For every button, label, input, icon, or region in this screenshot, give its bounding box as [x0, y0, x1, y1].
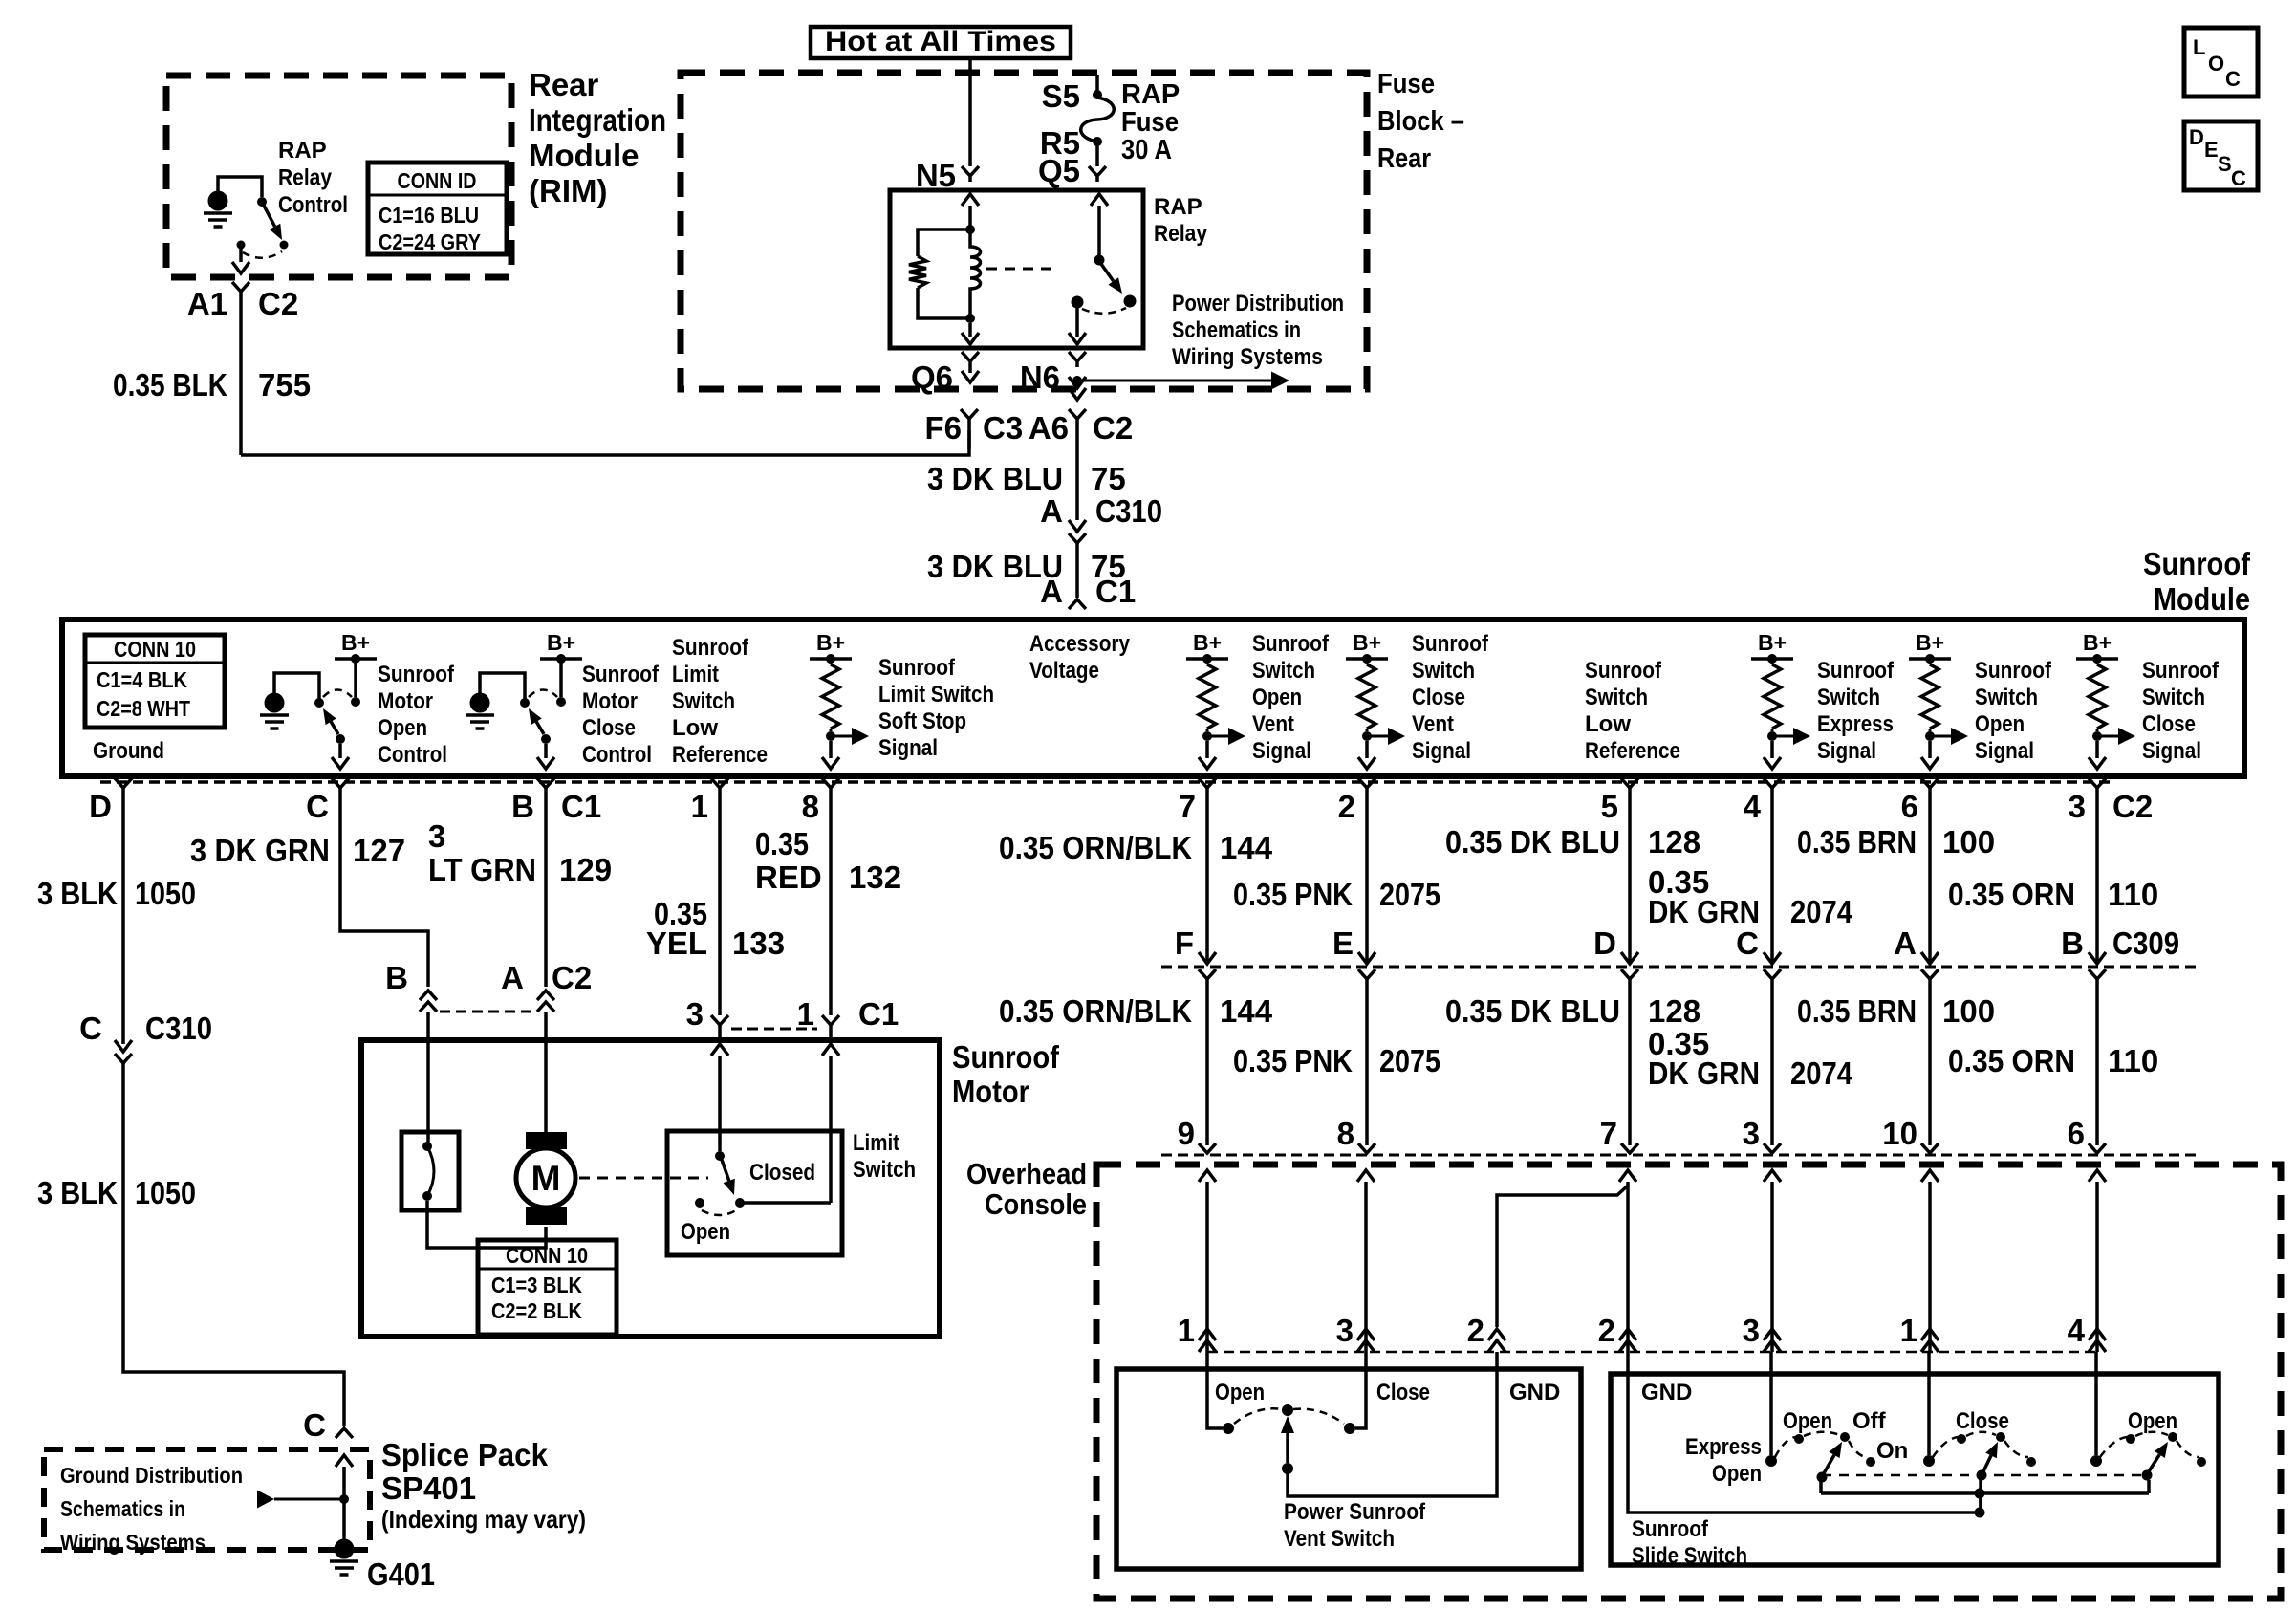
- svg-text:100: 100: [1942, 993, 1995, 1029]
- svg-text:N6: N6: [1020, 359, 1060, 395]
- pull-up resistor: [1929, 659, 1932, 664]
- junction and signal arrow (soft stop): [826, 731, 835, 741]
- svg-text:128: 128: [1648, 993, 1700, 1029]
- svg-text:Open: Open: [1215, 1380, 1265, 1405]
- svg-text:A: A: [1040, 493, 1063, 529]
- console wire 10 to slide switch close: [1921, 1170, 1939, 1182]
- svg-text:128: 128: [1648, 824, 1700, 860]
- slide switch open wire to contact: [2094, 1352, 2098, 1455]
- wire 1050 from C310 to splice pack: [123, 1063, 344, 1426]
- relay switch arm with arrow: [1101, 264, 1114, 281]
- switch pivot node (motor close): [541, 734, 551, 744]
- module box: Sunroof Module: [62, 620, 2244, 776]
- module box: Overhead Console dashed outline: [1096, 1165, 2281, 1599]
- svg-text:C: C: [2231, 166, 2246, 190]
- wire from module pin to C309 at x=1430: [1365, 788, 1369, 961]
- protector bottom node: [422, 1191, 432, 1201]
- thermal protector box: [401, 1132, 459, 1210]
- wire from module pin to C309 at x=2194: [2095, 788, 2099, 961]
- close contact node: [1923, 1455, 1935, 1467]
- power feed box: Hot at All Times: [811, 27, 1071, 58]
- wire protector to motor bottom: [427, 1201, 546, 1248]
- component box: RAP Relay: [890, 190, 1143, 348]
- dashed throw arc (motor open switch): [323, 690, 352, 698]
- relay resistor branch wire: [918, 229, 970, 256]
- B+ stub wire to switch throw: [354, 659, 357, 697]
- pin A6 fork below fuse block: [1069, 409, 1086, 419]
- svg-text:0.35 BLK: 0.35 BLK: [113, 367, 227, 403]
- male connector chevron at splice pack: [336, 1428, 353, 1438]
- console entry fork: [2089, 1143, 2106, 1153]
- in-line connector pin A (motor harness): [537, 991, 554, 1000]
- svg-text:3: 3: [1743, 1116, 1760, 1151]
- vent close contact node: [1344, 1423, 1355, 1434]
- svg-text:Q6: Q6: [911, 359, 953, 395]
- dashed throw arc (limit switch): [702, 1210, 736, 1215]
- open right position node: [2197, 1457, 2206, 1467]
- switch arm with arrow (motor close): [536, 722, 544, 734]
- node S5: [1093, 90, 1102, 99]
- wire pin1 into motor box: [829, 1025, 833, 1042]
- svg-text:GND: GND: [1509, 1380, 1560, 1405]
- wire pivot to module edge pin C with arrow: [338, 744, 342, 758]
- svg-text:C2: C2: [1093, 410, 1133, 446]
- relay resistor lower wire: [918, 288, 970, 318]
- module pin 1 connector fork: [711, 778, 728, 788]
- entry arrow into splice pack: [336, 1455, 353, 1467]
- console wire 3 to slide switch express: [1764, 1170, 1781, 1182]
- svg-text:4: 4: [2068, 1313, 2086, 1348]
- CONN ID table box in RIM: [368, 163, 507, 254]
- svg-text:0.35 ORN: 0.35 ORN: [1948, 1043, 2075, 1078]
- close switch pivot-lower node: [1977, 1470, 1987, 1481]
- switch throw node (motor open): [351, 697, 360, 707]
- express actuator arrow: [1824, 1455, 1834, 1473]
- pin Q5 fork at RAP relay: [1089, 166, 1106, 182]
- arrow at C309: [1621, 952, 1638, 964]
- svg-text:SunroofModule: SunroofModule: [2143, 546, 2251, 617]
- slide mechanical link dashed: [1822, 1474, 2147, 1477]
- svg-text:132: 132: [849, 860, 901, 895]
- ground symbol inside RIM: [208, 191, 228, 211]
- wire B to thermal protector: [426, 1040, 430, 1143]
- svg-text:B+: B+: [2083, 630, 2112, 655]
- svg-text:CONN ID: CONN ID: [398, 168, 477, 193]
- svg-text:B: B: [2061, 925, 2084, 961]
- component box: Power Sunroof Vent Switch: [1116, 1369, 1581, 1569]
- svg-text:0.35 ORN: 0.35 ORN: [1948, 877, 2075, 912]
- wire from pin 1 down to motor pin 3: [718, 788, 722, 1015]
- svg-text:C1=16 BLU: C1=16 BLU: [379, 203, 479, 228]
- junction and signal arrow: [1767, 731, 1777, 741]
- console inner pin 1 connector: [1921, 1329, 1939, 1340]
- console inner pin 1 connector: [1199, 1329, 1216, 1340]
- console entry fork: [1621, 1143, 1638, 1153]
- wire fixed contact to ground symbol: [480, 673, 525, 699]
- svg-text:B+: B+: [547, 630, 575, 655]
- svg-text:F: F: [1175, 925, 1194, 961]
- svg-text:0.35 BRN: 0.35 BRN: [1797, 993, 1917, 1029]
- svg-text:E: E: [1332, 925, 1354, 961]
- svg-text:9: 9: [1178, 1116, 1195, 1151]
- vent wire 3 to close contact: [1355, 1352, 1366, 1428]
- svg-text:L: L: [2193, 35, 2205, 59]
- svg-text:(Indexing may vary): (Indexing may vary): [381, 1505, 586, 1534]
- svg-text:3: 3: [1336, 1313, 1354, 1348]
- relay switch throw node: [1124, 295, 1137, 308]
- wire pin3 into motor box: [718, 1025, 722, 1042]
- svg-text:B+: B+: [1193, 630, 1222, 655]
- dashed throw arc of relay switch: [1082, 308, 1126, 314]
- svg-text:A1: A1: [187, 286, 227, 321]
- svg-text:8: 8: [1337, 1116, 1354, 1151]
- svg-text:Closed: Closed: [749, 1160, 815, 1186]
- svg-text:75: 75: [1091, 461, 1126, 496]
- C309 fork: [1921, 969, 1939, 979]
- svg-text:M: M: [531, 1159, 561, 1198]
- svg-text:3 DK BLU: 3 DK BLU: [927, 461, 1063, 496]
- svg-text:1: 1: [1900, 1313, 1917, 1348]
- svg-text:127: 127: [353, 833, 405, 868]
- svg-text:7: 7: [1600, 1116, 1617, 1151]
- node N6 junction: [1072, 376, 1082, 385]
- module pin C connector fork: [332, 778, 349, 788]
- relay switch common node: [1072, 296, 1084, 309]
- console wire 6 to slide switch open: [2089, 1170, 2106, 1182]
- wire B into motor box: [426, 1012, 430, 1040]
- express contact node: [1765, 1455, 1777, 1467]
- motor M armature bottom terminal: [526, 1207, 567, 1225]
- in-line connector C310 on ground wire: [115, 1040, 132, 1052]
- svg-text:3: 3: [686, 996, 704, 1032]
- svg-text:2: 2: [1467, 1313, 1484, 1348]
- svg-text:1: 1: [691, 789, 708, 824]
- svg-text:1050: 1050: [135, 876, 196, 911]
- dashed throw arc of RAP relay control switch: [243, 251, 282, 258]
- module pin 5 connector fork: [1621, 778, 1638, 788]
- svg-text:D: D: [89, 789, 112, 824]
- legend box LOC: [2184, 28, 2258, 97]
- svg-text:A: A: [1040, 574, 1063, 609]
- svg-text:B: B: [511, 789, 534, 824]
- svg-text:2074: 2074: [1790, 1056, 1853, 1091]
- slide switch close wire to contact: [1927, 1352, 1931, 1455]
- branch wire to vent switch GND: [1497, 1186, 1628, 1327]
- svg-text:1: 1: [797, 996, 814, 1032]
- motor connector pin 1 fork: [822, 1015, 839, 1025]
- svg-text:C2: C2: [552, 960, 592, 995]
- svg-text:D: D: [1593, 925, 1616, 961]
- console entry fork: [1199, 1143, 1216, 1153]
- console entry fork: [1358, 1143, 1375, 1153]
- svg-text:3 BLK: 3 BLK: [37, 1175, 118, 1210]
- svg-text:6: 6: [2068, 1116, 2085, 1151]
- module box: Sunroof Motor: [361, 1040, 940, 1337]
- svg-text:3 DK GRN: 3 DK GRN: [190, 833, 330, 868]
- svg-text:GND: GND: [1641, 1380, 1692, 1405]
- svg-text:G401: G401: [367, 1557, 435, 1592]
- wire from module pin to C309 at x=1263: [1205, 788, 1209, 961]
- wire to module edge pin 8 with arrow: [829, 741, 833, 758]
- svg-text:8: 8: [802, 789, 819, 824]
- wire Q6 to fuse block border with arrow: [968, 367, 972, 373]
- relay resistor: [909, 256, 926, 288]
- svg-text:755: 755: [258, 367, 311, 403]
- svg-text:6: 6: [1901, 789, 1918, 824]
- in-line connector C310 halves: [1069, 520, 1086, 532]
- dashed throw arc (motor close switch): [529, 690, 557, 698]
- svg-text:C: C: [1736, 925, 1759, 961]
- slide GND riser to common bus: [1979, 1493, 1982, 1513]
- open switch pivot-lower node: [2142, 1470, 2153, 1481]
- connector C309 dashed line: [1161, 966, 2199, 969]
- legend box DESC: [2184, 121, 2258, 190]
- svg-text:110: 110: [2108, 1043, 2158, 1078]
- relay switch pivot node: [1094, 255, 1105, 266]
- svg-text:C1: C1: [1095, 574, 1136, 609]
- svg-text:C310: C310: [1095, 493, 1162, 529]
- slide GND wire: [1628, 1352, 1981, 1513]
- dashed arcs of open switch: [2100, 1437, 2127, 1457]
- protector element arc: [427, 1146, 434, 1196]
- svg-text:B+: B+: [1916, 630, 1944, 655]
- C309 fork: [1199, 969, 1216, 979]
- fuse element RAP Fuse 30 A: [1081, 98, 1115, 142]
- reference arrow to Power Distribution Schematics: [1077, 380, 1271, 382]
- wire fixed contact to ground symbol: [274, 673, 319, 699]
- svg-text:144: 144: [1220, 830, 1273, 865]
- dashed arcs of close switch: [1933, 1437, 1958, 1457]
- svg-text:C1=4 BLK: C1=4 BLK: [97, 667, 187, 692]
- wire N6 through border with double arrows: [1069, 377, 1086, 388]
- svg-text:C1: C1: [858, 996, 899, 1032]
- arrow at C309: [1764, 952, 1781, 964]
- close actuator arrow: [1983, 1455, 1991, 1471]
- svg-text:N5: N5: [916, 158, 956, 193]
- svg-text:2: 2: [1598, 1313, 1615, 1348]
- svg-text:7: 7: [1179, 789, 1196, 824]
- wire from C309 to overhead console at x=1705: [1628, 979, 1632, 1145]
- wire to module edge with arrow: [1928, 741, 1932, 758]
- wire from pin B down to motor pin A: [544, 788, 548, 987]
- svg-text:2: 2: [1338, 789, 1355, 824]
- svg-text:CONN 10: CONN 10: [114, 637, 196, 662]
- limit switch feed arrow (pin 3 wire): [711, 1044, 728, 1056]
- splice junction node: [339, 1494, 349, 1504]
- component box: limit switch: [667, 1131, 842, 1255]
- svg-text:C2: C2: [2112, 789, 2153, 824]
- svg-text:C1=3 BLK: C1=3 BLK: [491, 1273, 582, 1297]
- svg-text:B+: B+: [1353, 630, 1381, 655]
- wire pivot to module edge pin B with arrow: [544, 744, 548, 758]
- close right position node: [2026, 1457, 2036, 1467]
- svg-text:Open: Open: [1783, 1408, 1832, 1434]
- reference arrow to ground distribution: [257, 1491, 274, 1509]
- svg-text:Q5: Q5: [1038, 153, 1080, 188]
- ground G401 symbol: [335, 1539, 355, 1559]
- svg-text:On: On: [1876, 1438, 1908, 1464]
- ground symbol (motor close switch): [470, 693, 490, 713]
- slide common bus wire: [1821, 1480, 2149, 1493]
- wire from ground to RAP relay control switch contact: [218, 177, 262, 197]
- svg-text:Close: Close: [1956, 1408, 2009, 1434]
- console inner pin 2 connector: [1619, 1329, 1636, 1340]
- switch pivot node (motor open): [336, 734, 345, 744]
- dashed arcs of express switch: [1775, 1437, 1795, 1457]
- switch arm with arrow (motor open): [331, 722, 338, 734]
- relay coil top junction: [965, 225, 975, 234]
- module box: Rear Integration Module (RIM) dashed outline: [166, 76, 511, 277]
- pin N5 fork at RAP relay: [962, 166, 979, 182]
- CONN 10 table box in motor: [478, 1240, 617, 1335]
- protector top node: [422, 1142, 432, 1151]
- relay switch feed wire with up arrow: [1091, 194, 1108, 206]
- svg-text:0.35 PNK: 0.35 PNK: [1233, 877, 1353, 912]
- relay coil bottom junction: [965, 314, 975, 323]
- svg-text:C1: C1: [561, 789, 601, 824]
- motor M circle: [516, 1148, 575, 1208]
- dashed line of motor connector C2: [440, 1011, 535, 1013]
- svg-text:F6: F6: [924, 410, 962, 446]
- pull-up resistor: [1366, 659, 1369, 664]
- vent open contact node: [1223, 1423, 1234, 1434]
- relay coil (inductor): [970, 229, 981, 318]
- pin A1 connector fork below RIM: [232, 282, 249, 455]
- dashed line of motor connector C1: [731, 1028, 817, 1031]
- svg-text:O: O: [2208, 52, 2224, 76]
- wire from C309 to overhead console at x=1430: [1365, 979, 1369, 1145]
- svg-text:C309: C309: [2112, 925, 2179, 961]
- dashed mechanical link motor to limit switch: [579, 1177, 708, 1180]
- pin F6 fork below fuse block: [961, 409, 978, 449]
- module pin 8 connector fork: [822, 778, 839, 788]
- svg-text:B+: B+: [341, 630, 370, 655]
- limit switch arm with arrow: [722, 1160, 729, 1181]
- open actuator arrow: [2149, 1454, 2159, 1471]
- limit switch pin1 feed arrow: [822, 1044, 839, 1056]
- arrow at C309: [1921, 952, 1939, 964]
- console wire 7 ground feed with branch: [1619, 1170, 1636, 1182]
- svg-text:D: D: [2189, 125, 2204, 149]
- svg-text:110: 110: [2108, 877, 2158, 912]
- C309 fork: [2089, 969, 2106, 979]
- module pin 4 connector fork: [1764, 778, 1781, 788]
- wire A into motor box: [544, 1012, 548, 1040]
- wire 755 from RIM A1 to fuse block F6: [241, 430, 969, 455]
- slide switch express wire to contact: [1769, 1352, 1773, 1455]
- arrow at C309: [2089, 952, 2106, 964]
- console wire 9 to vent switch open contact: [1199, 1170, 1216, 1182]
- arrow at C309: [1358, 952, 1375, 964]
- node R5: [1093, 137, 1102, 146]
- svg-text:0.35 PNK: 0.35 PNK: [1233, 1043, 1353, 1078]
- svg-text:C: C: [79, 1011, 102, 1046]
- console entry fork: [1921, 1143, 1939, 1153]
- console inner pin 4 connector: [2089, 1329, 2106, 1340]
- svg-text:C: C: [2225, 67, 2241, 91]
- motor connector pin 3 fork: [711, 1015, 728, 1025]
- svg-text:E: E: [2204, 138, 2219, 162]
- relay coil output wire Q6 with down arrow: [968, 323, 972, 337]
- limit switch closed contact node: [735, 1198, 745, 1208]
- svg-text:2075: 2075: [1379, 1043, 1440, 1078]
- component box: Sunroof Slide Switch: [1611, 1374, 2219, 1565]
- open left position node: [2126, 1434, 2135, 1444]
- junction and signal arrow: [2092, 731, 2102, 741]
- wire from pin C down, jog to motor pin B: [340, 788, 428, 987]
- in-line connector pin B (motor harness): [420, 991, 437, 1000]
- wire from module pin to C309 at x=1705: [1628, 788, 1632, 961]
- wire from pin D down to C310: [121, 788, 125, 1044]
- switch common node: [237, 241, 246, 250]
- wire to module edge with arrow: [1365, 741, 1369, 758]
- svg-text:1: 1: [1178, 1313, 1195, 1348]
- dashed mechanical link coil to switch: [986, 268, 1059, 271]
- vent switch actuator arrow: [1286, 1431, 1289, 1463]
- wire A to motor: [544, 1040, 548, 1132]
- svg-text:2074: 2074: [1790, 894, 1853, 929]
- module pin 3 connector fork: [2089, 778, 2106, 788]
- svg-text:0.35 ORN/BLK: 0.35 ORN/BLK: [999, 830, 1192, 865]
- vent switch common junction node: [1282, 1463, 1293, 1474]
- express pivot-top node: [1840, 1432, 1850, 1442]
- relay coil feed wire with up arrow: [962, 194, 979, 206]
- svg-text:C2=24 GRY: C2=24 GRY: [379, 229, 481, 254]
- svg-text:129: 129: [559, 852, 612, 887]
- wire from switch common down to RIM border with arrow: [239, 249, 243, 262]
- svg-text:Ground: Ground: [93, 738, 164, 764]
- svg-text:Hot at All Times: Hot at All Times: [825, 26, 1056, 57]
- switch fixed contact node (motor close): [520, 698, 530, 708]
- svg-text:0.35 BRN: 0.35 BRN: [1797, 824, 1917, 860]
- svg-text:3: 3: [2069, 789, 2086, 824]
- dashed throw arcs (vent switch): [1234, 1408, 1282, 1424]
- svg-text:RAPFuse30 A: RAPFuse30 A: [1121, 79, 1180, 165]
- svg-text:OverheadConsole: OverheadConsole: [966, 1157, 1087, 1221]
- pull-up resistor: [2096, 659, 2099, 664]
- svg-text:RAPRelay: RAPRelay: [1154, 194, 1208, 247]
- wire from C309 to overhead console at x=2194: [2095, 979, 2099, 1145]
- splice pack bus wire: [342, 1467, 346, 1541]
- close pivot riser: [1979, 1475, 1982, 1513]
- svg-text:B+: B+: [1758, 630, 1787, 655]
- wire to module edge with arrow: [1205, 741, 1209, 758]
- CONN 10 table box in sunroof module: [85, 635, 225, 728]
- motor M armature top terminal: [526, 1132, 567, 1149]
- express left position node: [1794, 1434, 1804, 1444]
- switch throw node (motor close): [556, 697, 566, 707]
- module pin 6 connector fork: [1921, 778, 1939, 788]
- wire from module pin to C309 at x=1854: [1770, 788, 1774, 961]
- svg-text:C310: C310: [145, 1011, 212, 1046]
- svg-text:C2=2 BLK: C2=2 BLK: [491, 1298, 582, 1323]
- pin N6 fork below relay: [1069, 352, 1086, 367]
- svg-text:C3: C3: [983, 410, 1023, 446]
- svg-text:S: S: [2218, 152, 2232, 176]
- svg-text:C: C: [303, 1407, 326, 1443]
- express right position node: [1866, 1457, 1875, 1467]
- wire to RAP fuse S5: [1095, 75, 1099, 91]
- svg-text:0.35 DK BLU: 0.35 DK BLU: [1445, 824, 1620, 860]
- svg-text:3: 3: [1743, 1313, 1760, 1348]
- arrow at C309: [1199, 952, 1216, 964]
- console wire 8 to vent switch close contact: [1357, 1170, 1375, 1182]
- wire from C309 to overhead console at x=2019: [1928, 979, 1932, 1145]
- vent switch common wire to GND pin: [1288, 1352, 1497, 1496]
- C309 fork: [1358, 969, 1375, 979]
- svg-text:CONN 10: CONN 10: [506, 1243, 588, 1268]
- svg-text:Open: Open: [681, 1219, 730, 1245]
